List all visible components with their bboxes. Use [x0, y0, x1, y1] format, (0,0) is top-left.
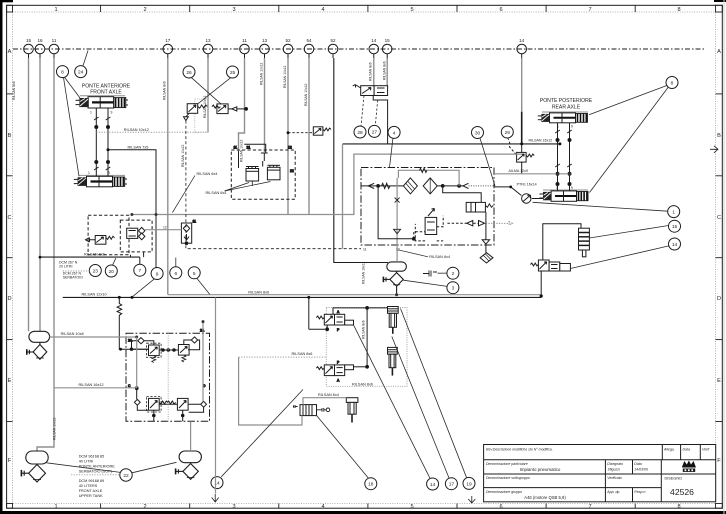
svg-text:12: 12 — [163, 225, 167, 229]
svg-text:5: 5 — [410, 504, 413, 510]
svg-text:1: 1 — [90, 111, 92, 115]
air tank 2 (bottom left) — [21, 451, 48, 482]
leader 14 to valve — [570, 246, 668, 269]
leader 17 to cylinderA — [392, 337, 449, 479]
svg-text:15: 15 — [672, 224, 678, 230]
svg-text:DCM 96168 89: DCM 96168 89 — [79, 479, 105, 483]
PTFE line — [494, 187, 521, 196]
cylinder front axle lower — [74, 171, 127, 187]
svg-text:2: 2 — [143, 7, 146, 13]
leader 5 — [197, 278, 210, 294]
svg-text:9: 9 — [156, 272, 159, 278]
air tank 4 (small, center) — [383, 262, 407, 295]
main 12x10 pair — [168, 294, 541, 296]
page edge black marks — [0, 0, 3, 514]
leaders 2/3 to tank4 — [438, 272, 447, 274]
svg-text:42526: 42526 — [670, 487, 694, 497]
wire from node 14a — [373, 58, 375, 86]
air dryer unit box — [361, 168, 512, 264]
wire from node 11 — [37, 58, 54, 451]
item balloons with number inside — [57, 66, 681, 490]
svg-text:SERBATOIO: SERBATOIO — [63, 276, 83, 280]
leader 15 to spring cylinder — [589, 226, 668, 239]
horn cylinder — [346, 398, 358, 423]
exhaust path right — [447, 212, 512, 263]
pressure valve bottom-right — [177, 398, 188, 410]
svg-text:AILMA 12x9: AILMA 12x9 — [509, 169, 528, 173]
svg-text:RILSAN 8x6: RILSAN 8x6 — [84, 252, 105, 256]
leader circle8 to front cylinders — [65, 77, 81, 98]
leaders circle8b to rear cylinders — [589, 85, 668, 115]
valve V26 (levelling valve left) — [184, 99, 209, 132]
svg-text:25: 25 — [230, 70, 236, 76]
svg-text:20: 20 — [109, 269, 115, 275]
tank line lower gray — [54, 387, 137, 389]
svg-text:6: 6 — [174, 271, 177, 277]
svg-text:RILSAN 6x4: RILSAN 6x4 — [206, 191, 227, 195]
svg-text:17: 17 — [449, 482, 455, 488]
svg-text:F: F — [717, 458, 721, 464]
svg-text:Denominazione gruppo: Denominazione gruppo — [486, 490, 522, 494]
valve V25 (levelling valve right) — [212, 104, 248, 114]
AILMA line — [494, 173, 570, 175]
rotated hose labels — [12, 61, 387, 440]
svg-text:B: B — [717, 133, 721, 139]
leader circle24 — [83, 51, 88, 66]
center dotted vertical in cluster — [167, 333, 169, 421]
svg-text:RILSAN 7x5: RILSAN 7x5 — [128, 145, 149, 149]
svg-text:52: 52 — [285, 38, 291, 43]
pressure limit valve top-right — [178, 345, 189, 356]
svg-text:8: 8 — [61, 70, 64, 76]
leaders 28/27 dashed to hand valve — [361, 96, 364, 127]
main line — [361, 178, 494, 194]
svg-text:20 LITRI: 20 LITRI — [59, 265, 72, 269]
svg-text:3: 3 — [232, 504, 235, 510]
spring drop to cluster — [117, 297, 148, 349]
svg-text:Data: Data — [683, 448, 690, 452]
svg-text:14/03/06: 14/03/06 — [634, 468, 648, 472]
svg-text:30: 30 — [475, 131, 481, 137]
leader 1 to compressor — [533, 202, 668, 211]
svg-text:RILSAN 10x12: RILSAN 10x12 — [283, 65, 287, 88]
internal wiring — [309, 299, 388, 368]
svg-text:1: 1 — [54, 7, 57, 13]
svg-text:3: 3 — [452, 286, 455, 292]
wire from node 13b — [264, 58, 266, 152]
levelling dashed link — [288, 132, 313, 134]
air horn valve group — [294, 405, 330, 416]
svg-text:29: 29 — [505, 130, 511, 136]
exhaust dashed line — [186, 121, 361, 249]
svg-text:7: 7 — [138, 268, 141, 274]
TITLEBLOCK — [484, 445, 716, 502]
svg-text:4: 4 — [393, 130, 396, 136]
svg-text:C: C — [717, 215, 721, 221]
hose drops between rear cylinders — [555, 123, 572, 191]
dashed box3 (relay valves) — [231, 144, 295, 199]
svg-text:RILSAN 8x6: RILSAN 8x6 — [369, 62, 373, 81]
svg-text:E: E — [8, 378, 12, 384]
svg-text:14: 14 — [519, 38, 525, 43]
diamonds top — [138, 338, 144, 344]
cylinder rear axle lower — [539, 186, 588, 201]
svg-text:12: 12 — [288, 146, 292, 150]
svg-text:RILSAN 16x12: RILSAN 16x12 — [362, 261, 366, 284]
wire from node 15b — [386, 58, 388, 86]
svg-text:2: 2 — [143, 504, 146, 510]
svg-text:FRONT AXLE: FRONT AXLE — [90, 90, 122, 96]
svg-text:A: A — [717, 49, 721, 55]
svg-text:C: C — [7, 215, 11, 221]
svg-text:11: 11 — [242, 38, 247, 43]
svg-text:1: 1 — [672, 210, 675, 216]
svg-text:1: 1 — [88, 171, 90, 175]
diamonds bottom — [134, 399, 140, 405]
air tank 3 (bottom middle-left) — [175, 451, 202, 479]
dotted gray mid-bottom — [239, 356, 327, 358]
svg-text:A: A — [8, 49, 12, 55]
svg-text:UPPER TANK: UPPER TANK — [79, 494, 103, 498]
svg-text:RILSAN 8x6: RILSAN 8x6 — [248, 290, 269, 294]
svg-text:40 LITERS: 40 LITERS — [79, 484, 98, 488]
wire from node 52b — [334, 58, 388, 263]
svg-text:RILSAN 8x6: RILSAN 8x6 — [383, 61, 387, 80]
svg-text:RILSAN 16x12: RILSAN 16x12 — [79, 383, 104, 387]
svg-text:14: 14 — [672, 242, 678, 248]
leader 14 to valveA — [354, 325, 430, 478]
svg-text:FRONT AXLE: FRONT AXLE — [79, 489, 103, 493]
svg-text:Data: Data — [634, 462, 641, 466]
svg-text:Rev.Descrizione modifiche sto: Rev.Descrizione modifiche sto N° modific… — [486, 448, 553, 452]
svg-text:Impianto pneumatico: Impianto pneumatico — [520, 467, 561, 472]
purge line gray down to tank — [396, 178, 398, 262]
hand brake valve U1 — [353, 85, 388, 144]
svg-text:App. dp.: App. dp. — [606, 490, 620, 494]
air tank 1 (mid left) — [26, 331, 49, 359]
wire from node 11b — [239, 58, 245, 151]
tank1 line — [50, 336, 137, 338]
svg-text:5: 5 — [410, 7, 413, 13]
hose front axle feed — [108, 150, 156, 268]
svg-text:2A: 2A — [128, 339, 133, 343]
bus 8x6 left — [40, 256, 140, 258]
svg-text:REAR AXLE: REAR AXLE — [552, 105, 581, 111]
svg-text:21: 21 — [247, 146, 251, 150]
leader 4 to dryer — [390, 138, 393, 167]
svg-text:E: E — [717, 378, 721, 384]
svg-text:22: 22 — [123, 473, 129, 479]
svg-text:RILSAN 8x6: RILSAN 8x6 — [292, 352, 313, 356]
protection valve to tipping valve — [145, 229, 182, 231]
valve V5mid (center bottom area) — [530, 260, 570, 296]
LEADERS — [47, 51, 669, 479]
svg-text:6: 6 — [499, 504, 502, 510]
svg-text:12: 12 — [396, 248, 400, 252]
cylinder B — [388, 347, 398, 375]
svg-text:PTFE 16x14: PTFE 16x14 — [517, 182, 537, 186]
svg-text:16: 16 — [37, 38, 43, 43]
leaders 26/25 to levelling valves — [192, 78, 222, 104]
leader 18 to horn valve — [317, 416, 368, 478]
svg-text:17: 17 — [165, 38, 171, 43]
svg-text:13: 13 — [262, 38, 268, 43]
leader 14 bottom-left — [221, 390, 303, 477]
svg-text:B: B — [8, 133, 12, 139]
leader 9 — [132, 279, 154, 297]
leader 19 to cylinderA top — [401, 309, 467, 478]
wire from node 14b — [521, 58, 523, 112]
cylinder front axle upper — [76, 96, 129, 115]
svg-text:19: 19 — [466, 481, 472, 487]
svg-text:Denominazione particolare: Denominazione particolare — [486, 462, 528, 466]
node bus line (dash-dot) — [13, 48, 706, 50]
gray down along dryer — [342, 144, 344, 249]
svg-text:DCM 96168 85: DCM 96168 85 — [79, 454, 105, 458]
label leaders — [172, 176, 195, 213]
valve V29 (small, right of 29) — [313, 127, 331, 135]
VLINES — [12, 58, 522, 451]
svg-text:Denominazione sottogruppo: Denominazione sottogruppo — [486, 476, 530, 480]
centering marks — [710, 146, 718, 153]
main rear bus — [343, 143, 560, 145]
valve B — [316, 360, 353, 382]
svg-text:RILSAN 10x12: RILSAN 10x12 — [53, 417, 57, 440]
svg-text:PONTE POSTERIORE: PONTE POSTERIORE — [540, 98, 593, 104]
spring brake cylinder — [543, 224, 590, 260]
svg-text:RILSAN 8x6: RILSAN 8x6 — [362, 320, 366, 339]
svg-text:22: 22 — [290, 169, 294, 173]
tank23 dotted leaders — [63, 270, 90, 272]
wire from node 52a — [287, 58, 289, 214]
svg-text:RILSAN 10x12: RILSAN 10x12 — [181, 144, 185, 167]
svg-text:8: 8 — [677, 504, 680, 510]
svg-text:15: 15 — [26, 38, 32, 43]
leader 6 — [175, 258, 177, 267]
svg-text:DISEGNO: DISEGNO — [665, 477, 683, 481]
logo — [682, 461, 696, 472]
wire from node 13a — [207, 58, 209, 132]
svg-text:11: 11 — [363, 248, 367, 252]
svg-text:9: 9 — [571, 125, 573, 129]
bottom row wiring — [137, 388, 204, 421]
dotted box4 (hand control valves) — [309, 299, 407, 387]
svg-text:bfiguzzi: bfiguzzi — [608, 468, 620, 472]
svg-text:7: 7 — [588, 7, 591, 13]
svg-text:14: 14 — [430, 482, 436, 488]
governor cylinder — [443, 186, 493, 212]
wire from node 16 — [39, 58, 41, 331]
svg-text:11: 11 — [193, 220, 197, 224]
svg-text:RILSAN 10x8: RILSAN 10x8 — [61, 332, 84, 336]
hose drops between front cylinders — [94, 108, 110, 176]
svg-text:RILSAN 8x6: RILSAN 8x6 — [352, 382, 373, 386]
wire from node 54 — [308, 58, 310, 214]
svg-text:F: F — [8, 458, 12, 464]
svg-text:5: 5 — [193, 271, 196, 277]
wire from node 17 — [167, 58, 169, 295]
hose front axle upper loop — [96, 131, 208, 133]
svg-text:40 LITRI: 40 LITRI — [79, 459, 94, 463]
cylinder rear axle upper — [538, 112, 588, 129]
svg-text:6: 6 — [499, 7, 502, 13]
svg-text:28: 28 — [357, 130, 363, 136]
svg-text:2: 2 — [452, 271, 455, 277]
svg-text:SERBATOIO (SUP): SERBATOIO (SUP) — [79, 469, 113, 473]
svg-text:Resp.n: Resp.n — [634, 490, 645, 494]
svg-text:15: 15 — [385, 38, 391, 43]
svg-text:A46 (motore QSB 5,9): A46 (motore QSB 5,9) — [524, 495, 566, 500]
DCM small text block — [59, 260, 83, 279]
svg-text:Allega.: Allega. — [663, 448, 675, 452]
svg-text:Verif: Verif — [702, 448, 710, 452]
bypass gray — [398, 170, 459, 186]
svg-text:27: 27 — [372, 129, 378, 135]
svg-text:18: 18 — [368, 482, 374, 488]
compressor pump circle — [522, 194, 543, 203]
svg-text:RILSAN 12x10: RILSAN 12x10 — [82, 293, 107, 297]
leader 29 dashed — [508, 138, 510, 142]
svg-text:13: 13 — [205, 38, 211, 43]
svg-text:RILSAN 6x4: RILSAN 6x4 — [429, 255, 450, 259]
svg-text:52: 52 — [330, 38, 336, 43]
svg-text:8: 8 — [677, 7, 680, 13]
svg-text:8: 8 — [671, 81, 674, 87]
pressure valve bottom-left — [147, 397, 162, 413]
cylinder A — [388, 307, 399, 334]
svg-text:RILSAN 10x12: RILSAN 10x12 — [260, 62, 264, 85]
svg-text:4: 4 — [321, 7, 324, 13]
svg-text:24: 24 — [78, 70, 84, 76]
svg-text:26: 26 — [186, 70, 192, 76]
component C11 (tipping valve) — [181, 220, 196, 245]
svg-text:RILSAN 10x12: RILSAN 10x12 — [304, 83, 308, 106]
svg-text:9: 9 — [111, 111, 113, 115]
svg-text:9: 9 — [571, 186, 573, 190]
drain fitting near tank4 — [423, 271, 437, 277]
tank text blocks — [79, 454, 116, 498]
leader 20 — [113, 258, 116, 265]
svg-text:D: D — [717, 296, 721, 302]
main valve cluster dash-dot box — [126, 329, 210, 422]
dashed box1 (quick release valve) — [86, 215, 130, 255]
svg-text:RILSAN 8x6: RILSAN 8x6 — [12, 81, 16, 100]
svg-text:RILSAN 6x4: RILSAN 6x4 — [197, 172, 218, 176]
gray loop mid — [132, 154, 522, 214]
regulator branch — [378, 186, 443, 241]
svg-text:RILSAN 16x12: RILSAN 16x12 — [529, 139, 553, 143]
svg-text:7: 7 — [588, 504, 591, 510]
valve A — [316, 310, 353, 332]
top row wiring — [130, 348, 178, 351]
svg-text:11: 11 — [234, 146, 238, 150]
svg-text:3: 3 — [232, 7, 235, 13]
gray verticals right of cluster — [202, 322, 204, 402]
pressure limit valve top-left — [147, 343, 162, 357]
svg-text:Disegnato: Disegnato — [607, 462, 623, 466]
svg-text:11: 11 — [52, 38, 57, 43]
svg-text:RILSAN 10x12: RILSAN 10x12 — [124, 128, 149, 132]
valve V8 (rear, below bus) — [510, 142, 535, 174]
leaders circle22 to tanks — [47, 463, 121, 473]
horn feed — [303, 398, 346, 405]
dashed box2 (protection valve) — [120, 220, 152, 252]
svg-text:RILSAN 8x6: RILSAN 8x6 — [163, 81, 167, 100]
svg-text:1: 1 — [54, 504, 57, 510]
svg-text:Verificato: Verificato — [607, 476, 622, 480]
wire from node 15 — [28, 58, 30, 331]
svg-text:RILSAN 6x4: RILSAN 6x4 — [318, 393, 339, 397]
bus balloons — [24, 44, 527, 58]
svg-text:54: 54 — [306, 38, 312, 43]
svg-text:14: 14 — [371, 38, 377, 43]
svg-text:D: D — [7, 296, 11, 302]
svg-text:23: 23 — [93, 269, 99, 275]
leader 30 to dryer outlet — [480, 138, 495, 186]
svg-text:RILSAN 10x12: RILSAN 10x12 — [240, 139, 244, 162]
svg-text:4: 4 — [321, 504, 324, 510]
